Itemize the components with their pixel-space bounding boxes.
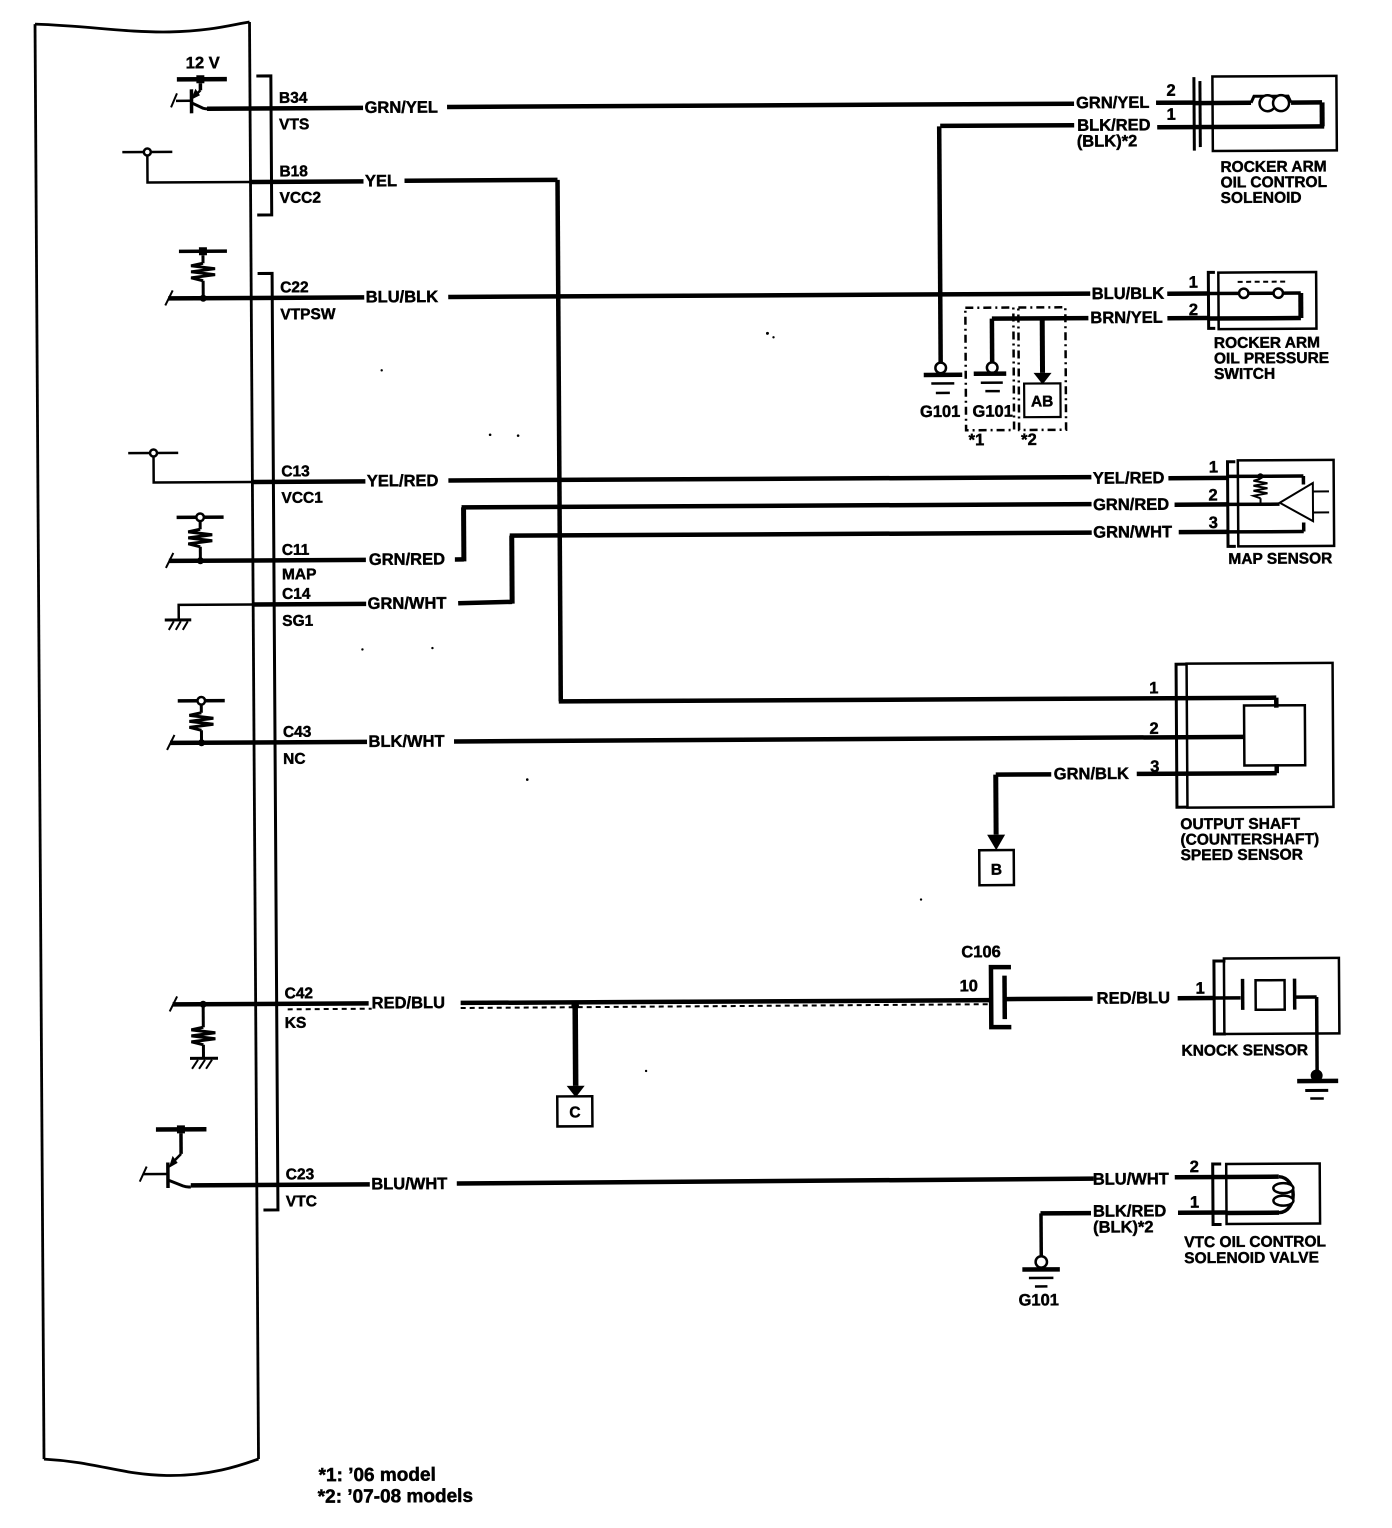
svg-text:1: 1 [1196,980,1205,998]
svg-text:KNOCK SENSOR: KNOCK SENSOR [1181,1042,1308,1060]
svg-text:VTC OIL CONTROL: VTC OIL CONTROL [1184,1233,1326,1251]
svg-text:SWITCH: SWITCH [1214,366,1275,383]
svg-text:*2: *2 [1021,431,1037,449]
svg-text:B34: B34 [279,90,308,107]
svg-text:VTC: VTC [286,1193,317,1210]
svg-text:YEL: YEL [365,172,397,190]
svg-text:G101: G101 [972,403,1012,421]
svg-text:GRN/WHT: GRN/WHT [368,594,447,612]
svg-text:MAP: MAP [282,566,317,583]
svg-text:BRN/YEL: BRN/YEL [1090,309,1163,327]
svg-text:C42: C42 [285,985,314,1002]
svg-text:1: 1 [1189,274,1198,292]
svg-text:GRN/WHT: GRN/WHT [1093,523,1172,541]
svg-text:BLU/WHT: BLU/WHT [1093,1170,1169,1188]
svg-text:VCC1: VCC1 [281,490,323,507]
svg-text:*1: ’06 model: *1: ’06 model [319,1465,436,1487]
svg-text:SOLENOID: SOLENOID [1221,190,1302,207]
svg-text:B18: B18 [279,163,308,180]
svg-text:C23: C23 [286,1166,315,1183]
svg-text:2: 2 [1208,486,1217,504]
svg-text:C11: C11 [282,542,310,559]
svg-text:GRN/YEL: GRN/YEL [364,99,437,117]
svg-text:BLK/WHT: BLK/WHT [368,733,444,751]
svg-text:C: C [569,1104,580,1121]
svg-text:1: 1 [1190,1194,1199,1212]
svg-text:VCC2: VCC2 [280,190,321,207]
svg-text:C106: C106 [961,943,1001,961]
svg-text:SOLENOID VALVE: SOLENOID VALVE [1184,1249,1319,1267]
svg-text:BLU/BLK: BLU/BLK [1092,285,1165,303]
svg-text:12 V: 12 V [186,54,220,72]
svg-text:NC: NC [283,751,305,768]
svg-text:GRN/YEL: GRN/YEL [1076,94,1149,112]
svg-text:*2: ’07-08 models: *2: ’07-08 models [318,1486,473,1508]
svg-text:10: 10 [960,977,978,995]
svg-text:AB: AB [1031,393,1053,410]
svg-text:BLU/WHT: BLU/WHT [371,1175,447,1193]
svg-text:(BLK)*2: (BLK)*2 [1077,132,1138,150]
svg-text:1: 1 [1149,679,1158,697]
svg-text:2: 2 [1149,720,1158,738]
svg-text:2: 2 [1190,1158,1199,1176]
svg-text:KS: KS [285,1015,307,1032]
svg-text:GRN/RED: GRN/RED [1093,496,1169,514]
svg-text:1: 1 [1209,458,1218,476]
svg-text:C43: C43 [283,724,312,741]
svg-text:RED/BLU: RED/BLU [372,994,445,1012]
svg-text:3: 3 [1209,514,1218,532]
svg-text:MAP SENSOR: MAP SENSOR [1228,550,1332,568]
svg-text:*1: *1 [969,431,985,449]
svg-text:1: 1 [1167,106,1176,124]
svg-text:(BLK)*2: (BLK)*2 [1093,1218,1154,1236]
svg-text:C13: C13 [281,463,310,480]
svg-text:GRN/BLK: GRN/BLK [1054,765,1129,783]
svg-text:GRN/RED: GRN/RED [369,551,445,569]
svg-text:BLU/BLK: BLU/BLK [366,288,439,306]
svg-text:B: B [991,862,1002,879]
svg-text:2: 2 [1166,82,1175,100]
svg-text:SG1: SG1 [282,613,314,630]
svg-text:2: 2 [1189,301,1198,319]
svg-text:VTPSW: VTPSW [280,306,336,323]
svg-text:VTS: VTS [279,116,309,133]
svg-text:YEL/RED: YEL/RED [1093,469,1165,487]
svg-text:SPEED SENSOR: SPEED SENSOR [1181,847,1303,865]
svg-text:C14: C14 [282,586,311,603]
svg-text:C22: C22 [280,279,309,296]
svg-text:G101: G101 [1018,1291,1058,1309]
svg-text:RED/BLU: RED/BLU [1097,989,1170,1007]
svg-text:G101: G101 [920,403,960,421]
svg-text:YEL/RED: YEL/RED [367,472,439,490]
